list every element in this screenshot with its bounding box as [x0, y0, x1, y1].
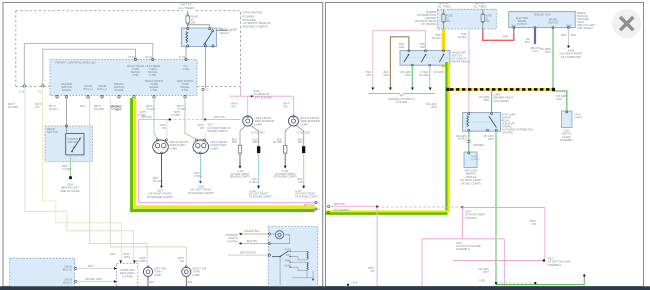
- svg-text:ORG: ORG: [124, 255, 130, 259]
- wire left drop B pale green: [25, 87, 134, 261]
- FCM top pins: [134, 58, 136, 60]
- svg-text:WHT: WHT: [557, 97, 563, 101]
- svg-text:VIO: VIO: [231, 105, 236, 109]
- headlamp switch box: [400, 51, 450, 66]
- svg-text:WHT: WHT: [110, 252, 116, 256]
- svg-text:(ENGINE COMPT): (ENGINE COMPT): [230, 176, 250, 179]
- svg-text:C344: C344: [351, 282, 358, 285]
- svg-text:BUS (+): BUS (+): [97, 87, 107, 91]
- svg-text:ENGINE COMPT): ENGINE COMPT): [243, 25, 268, 29]
- svg-text:OF BODY): OF BODY): [465, 217, 477, 220]
- splice dot left: [169, 118, 171, 120]
- ground wire from trailer tow: [568, 29, 570, 46]
- highlighted wire horizontal green band: [130, 209, 314, 212]
- pink drop right: [503, 239, 505, 286]
- CAN bus module box bottom left: [10, 258, 75, 287]
- svg-text:CUT): CUT): [532, 49, 538, 53]
- svg-text:VIO: VIO: [162, 127, 166, 130]
- wire left drop A pale yellow: [43, 87, 122, 261]
- svg-text:CTRL: CTRL: [182, 67, 190, 71]
- svg-text:GRN: GRN: [253, 141, 259, 144]
- left front lamp ground wire LT BLU: [200, 154, 202, 181]
- svg-text:ASSEMBLY): ASSEMBLY): [456, 248, 470, 251]
- svg-text:LT GRN: LT GRN: [171, 114, 180, 117]
- svg-text:20A: 20A: [446, 20, 451, 23]
- svg-text:1 E-SOCKET: 1 E-SOCKET: [251, 132, 266, 135]
- pink tail feed wire right of S344: [463, 207, 545, 209]
- switch ladder: [272, 251, 289, 257]
- svg-text:OF CARPET/MS): OF CARPET/MS): [561, 55, 581, 59]
- dashed highlighted wire black/yellow: [448, 88, 553, 91]
- highlighted circuit vertical: yellow band: [448, 62, 450, 212]
- bulb resistor right marker: [284, 145, 287, 153]
- junction S344: [461, 206, 463, 208]
- svg-text:ALL TIMES: ALL TIMES: [178, 6, 194, 10]
- svg-text:DK BLU: DK BLU: [458, 138, 467, 141]
- svg-text:LEFT ENGINE): LEFT ENGINE): [254, 95, 273, 99]
- pink drop left to bottom: [421, 239, 423, 286]
- svg-text:SIDE OF DASH): SIDE OF DASH): [60, 189, 80, 193]
- dashed IPM segment right of FCM with pin: [202, 88, 204, 90]
- resistor zigzags: [307, 251, 308, 259]
- wire FCM pin to hazard switch: [66, 98, 68, 134]
- power distribution center dashed box: [437, 9, 496, 29]
- ground wire left marker inner: [239, 153, 241, 166]
- svg-text:1 (TRN L): 1 (TRN L): [471, 159, 481, 161]
- pink wire to lower park feed: [139, 120, 315, 203]
- svg-text:WHT: WHT: [571, 33, 577, 37]
- green wire bottom run: [496, 276, 584, 284]
- svg-text:40 C2: 40 C2: [145, 55, 152, 59]
- pink park lamp feed solid-dashed-solid: [139, 119, 170, 121]
- svg-text:ORG: ORG: [405, 74, 411, 77]
- svg-text:LT BLU: LT BLU: [250, 181, 258, 184]
- svg-text:BLK: BLK: [188, 281, 193, 284]
- highlighted circuit horizontal green band: [326, 212, 448, 215]
- svg-text:SWITCH: SWITCH: [68, 141, 78, 144]
- svg-text:WHT: WHT: [483, 271, 489, 274]
- svg-text:OF ENGINE COMPT): OF ENGINE COMPT): [295, 195, 318, 198]
- svg-text:TAN: TAN: [298, 181, 303, 184]
- interior lights system arrows: [239, 233, 242, 236]
- hazard switch dashed box: [45, 126, 93, 162]
- wire drop D pale green: [110, 98, 186, 267]
- hazard switch ground wire LT GRN: [70, 155, 72, 176]
- pink run to S303: [453, 260, 544, 262]
- svg-text:ENGINE COMPT): ENGINE COMPT): [208, 130, 228, 133]
- computer data lines system box: [117, 264, 138, 287]
- svg-text:LAMP: LAMP: [154, 273, 162, 277]
- svg-text:DK GRN/WHT: DK GRN/WHT: [298, 209, 315, 213]
- svg-text:WHT/DK GRN: WHT/DK GRN: [85, 277, 102, 281]
- svg-text:1 (PARK): 1 (PARK): [574, 116, 583, 119]
- highlighted wire vertical green part: [130, 98, 133, 212]
- bus wire n-shape outer: [24, 43, 153, 84]
- junction S344 left: [376, 206, 378, 208]
- svg-text:LT GRN: LT GRN: [137, 114, 146, 117]
- svg-text:BLK/TAN: BLK/TAN: [247, 240, 257, 243]
- svg-text:47 C2: 47 C2: [179, 55, 186, 59]
- splice G300: [69, 176, 72, 179]
- svg-text:WHT/DK GRN: WHT/DK GRN: [240, 252, 256, 255]
- svg-text:TAN: TAN: [298, 141, 303, 144]
- teal ground wire left marker: [258, 153, 260, 186]
- hot at all times labels: [437, 2, 487, 9]
- svg-text:SYSTEM: SYSTEM: [122, 274, 133, 278]
- svg-text:SWITCH: SWITCH: [548, 22, 558, 25]
- white stub wires from splices to lamp pins: [167, 120, 205, 140]
- stop lamp relay: [463, 113, 501, 132]
- ABS module box: [464, 152, 477, 168]
- left tail turn lamp: [143, 267, 152, 276]
- close button: [612, 9, 641, 38]
- svg-text:10A: 10A: [191, 21, 196, 25]
- svg-text:FRONT CONTROL MODULE: FRONT CONTROL MODULE: [55, 61, 96, 65]
- svg-text:DK GRN: DK GRN: [153, 179, 163, 183]
- svg-text:ALL TIMES: ALL TIMES: [473, 5, 487, 9]
- svg-text:1 (BLU): 1 (BLU): [574, 114, 582, 116]
- highlighted circuit horizontal to left edge: yellow band: [326, 210, 448, 212]
- green wire from switch to engine controls: [411, 65, 413, 88]
- svg-text:VIO: VIO: [370, 270, 374, 273]
- green wire from dashed down to stop lamp relay: [491, 91, 493, 113]
- S344 label: [494, 93, 514, 103]
- svg-text:1 E-SOCKET: 1 E-SOCKET: [296, 132, 311, 135]
- svg-text:GND: GND: [566, 25, 572, 28]
- svg-text:20A: 20A: [485, 20, 490, 23]
- svg-text:OUTPUT: OUTPUT: [517, 23, 528, 26]
- svg-text:DK GRN: DK GRN: [8, 105, 18, 109]
- svg-text:ORG: ORG: [399, 46, 405, 49]
- pink wire drop from S344: [462, 208, 464, 239]
- svg-text:WHT: WHT: [484, 99, 490, 102]
- svg-text:CENTER): CENTER): [502, 132, 513, 135]
- svg-text:LT GRN: LT GRN: [62, 167, 71, 171]
- junction dot bottom left of right panel: [347, 284, 349, 286]
- svg-text:41 C2: 41 C2: [128, 55, 135, 59]
- svg-text:BLK: BLK: [562, 33, 567, 37]
- FCM bottom pins: [56, 96, 186, 98]
- svg-text:OF ENG COMPT): OF ENG COMPT): [461, 182, 481, 185]
- left page frame: [3, 3, 323, 287]
- red wire fuse31 to trailer tow module: [483, 29, 514, 41]
- svg-text:ASSEMBLY: ASSEMBLY: [560, 139, 574, 142]
- svg-text:VIO: VIO: [200, 127, 204, 130]
- pink wire down right side of FCM from relay: [202, 91, 204, 121]
- switch contacts inside: [404, 54, 444, 62]
- bulb resistor left marker: [238, 145, 241, 153]
- FCM left boundary pins on IPM edge: [23, 85, 25, 87]
- svg-text:ORG: ORG: [383, 74, 389, 77]
- svg-text:WHT/VIO: WHT/VIO: [334, 203, 345, 206]
- green wire FCM to right front lamp: [154, 98, 158, 139]
- stop lamp switch lever box: [562, 111, 573, 128]
- left front side marker lamp: [243, 116, 253, 126]
- splice box left marker: [257, 146, 260, 153]
- svg-text:(HIDDEN): (HIDDEN): [473, 144, 484, 147]
- svg-text:DK BLU: DK BLU: [49, 107, 58, 111]
- svg-text:G305: G305: [479, 280, 486, 283]
- blunt cut dk blu wire: [534, 29, 536, 44]
- svg-text:1 (BLU): 1 (BLU): [471, 156, 479, 158]
- highlighted wire horizontal yellow band: [133, 205, 314, 208]
- svg-text:BRAKE PEDAL): BRAKE PEDAL): [452, 60, 471, 64]
- svg-text:WHT: WHT: [431, 105, 437, 109]
- svg-text:CTRL: CTRL: [181, 88, 189, 92]
- svg-text:TRAILER TOW: TRAILER TOW: [534, 14, 552, 17]
- svg-text:DK GRN: DK GRN: [273, 141, 283, 144]
- CAN wires to computer box: [77, 268, 114, 270]
- svg-text:WHT/VIO: WHT/VIO: [214, 116, 225, 119]
- pink side marker feed S102: [230, 87, 294, 116]
- svg-text:LT BLU: LT BLU: [194, 174, 203, 178]
- svg-text:B(+): B(+): [511, 25, 516, 28]
- wire labels below FCM: [8, 102, 186, 111]
- fuse 31: [482, 9, 484, 29]
- right page frame: [326, 3, 644, 287]
- svg-text:RED: RED: [503, 35, 509, 39]
- integrated power module dashed boundary: [16, 11, 241, 87]
- highlighted wire vertical yellow part: [133, 98, 136, 205]
- svg-text:DK BLU: DK BLU: [458, 35, 467, 39]
- bottom task bar: [0, 286, 650, 290]
- svg-text:SYSTEM: SYSTEM: [227, 239, 238, 243]
- svg-text:VIO: VIO: [283, 105, 288, 109]
- hazard switch contacts: [72, 139, 80, 151]
- svg-text:SIGNAL: SIGNAL: [62, 88, 72, 92]
- dome lamp symbol: [275, 231, 283, 239]
- svg-text:SIGNAL: SIGNAL: [114, 88, 124, 92]
- dashed tail feed wire: [330, 205, 377, 207]
- svg-text:DK GRN: DK GRN: [434, 71, 444, 74]
- connector pins at right edge of highlighted wire: [315, 201, 317, 203]
- right front lamp ground wire BLK: [161, 154, 163, 186]
- svg-text:BLU: BLU: [525, 40, 530, 44]
- svg-text:PNK: PNK: [218, 28, 223, 31]
- right front side marker lamp: [289, 116, 299, 126]
- ground wire right marker inner: [284, 153, 286, 166]
- svg-text:WHT: WHT: [88, 264, 94, 268]
- svg-text:GRY: GRY: [420, 46, 426, 49]
- tan ground wire right marker: [303, 153, 305, 186]
- svg-text:OF ENGINE COMPT): OF ENGINE COMPT): [274, 176, 297, 179]
- arrows into computer data lines box: [119, 261, 122, 264]
- svg-text:SWITCH: SWITCH: [47, 130, 58, 134]
- left front park/turn lamp: [193, 140, 209, 154]
- headlamp switch assembly box: [268, 227, 318, 287]
- splice S305 dashed stub: [497, 282, 535, 284]
- svg-text:KICK PANEL): KICK PANEL): [577, 26, 593, 30]
- pink bus to taillamps: [422, 238, 504, 240]
- svg-text:OF ENGINE COMPT): OF ENGINE COMPT): [188, 191, 214, 195]
- svg-text:ALL TIMES: ALL TIMES: [437, 5, 451, 9]
- svg-text:BUS (-): BUS (-): [84, 87, 93, 91]
- engine controls arrowheads: [371, 88, 374, 91]
- green wire FCM to left front lamp: [185, 98, 196, 139]
- pink loop to engine controls: [373, 31, 426, 88]
- front control module box: [50, 59, 197, 95]
- green wire relay to ABS module: [468, 131, 470, 152]
- svg-text:OF ENGINE COMPT): OF ENGINE COMPT): [249, 195, 272, 198]
- svg-text:BUS (-): BUS (-): [63, 281, 72, 285]
- wire drop C tan: [90, 98, 148, 267]
- highlighted yellow feed wire: [442, 29, 445, 68]
- svg-text:CTRL: CTRL: [132, 73, 140, 77]
- wire labels below switch: [366, 71, 445, 77]
- wire branch fuse to relay coil+switch: [188, 25, 210, 28]
- svg-text:VIO: VIO: [532, 223, 536, 226]
- svg-text:SYSTEM: SYSTEM: [396, 100, 408, 104]
- svg-text:4 C3: 4 C3: [19, 91, 25, 94]
- dk grn wire from trailer tow down: [553, 29, 567, 111]
- svg-text:WHT: WHT: [80, 104, 86, 108]
- svg-text:CTRL: CTRL: [149, 73, 157, 77]
- park lamp relay U-relay: [182, 28, 217, 47]
- svg-text:DK GRN: DK GRN: [136, 259, 146, 263]
- svg-text:OF TRUNK): OF TRUNK): [421, 22, 436, 26]
- relay output stub right: [217, 30, 228, 32]
- FCM inner labels top row: [61, 64, 194, 92]
- left marker socket assembly: [240, 126, 246, 146]
- svg-text:BUS (+): BUS (+): [63, 268, 72, 272]
- svg-text:GRN: GRN: [232, 141, 238, 144]
- svg-text:DK GRN/WHT: DK GRN/WHT: [334, 209, 351, 212]
- splice box right marker: [302, 146, 305, 153]
- right marker socket assembly: [285, 126, 291, 146]
- pink wire drop WHT/VIO left: [376, 207, 378, 286]
- svg-text:OF ENGINE COMPT): OF ENGINE COMPT): [147, 195, 173, 199]
- trailer tow module box: [509, 12, 576, 28]
- edge connector pins on highlighted wire: [328, 205, 330, 207]
- pink wire fuse31 to stop lamp relay: [468, 29, 470, 113]
- right front park/turn lamp: [153, 140, 169, 154]
- engine controls brace: [368, 94, 435, 97]
- wire relay to FCM pin 47: [185, 47, 187, 60]
- svg-text:KICK PANEL): KICK PANEL): [494, 99, 510, 103]
- brown loop to engine controls: [390, 37, 409, 88]
- fuse 32: [443, 9, 445, 29]
- green wire relay down long: [495, 131, 497, 285]
- pink drop from dashed bus right: [544, 208, 546, 261]
- fuse F32: [187, 11, 189, 28]
- svg-text:LAMP: LAMP: [193, 273, 201, 277]
- svg-text:VIO: VIO: [35, 105, 39, 109]
- svg-text:WHT: WHT: [115, 108, 121, 112]
- svg-text:LAMP: LAMP: [211, 146, 219, 150]
- svg-text:ASSEMBLY): ASSEMBLY): [548, 264, 562, 267]
- teal wire from switch to engine controls: [429, 65, 431, 88]
- svg-text:VIO: VIO: [180, 259, 184, 263]
- highlighted circuit vertical: green band: [445, 62, 447, 215]
- svg-text:RELAY: RELAY: [220, 31, 230, 35]
- svg-text:DK GRN: DK GRN: [419, 74, 429, 77]
- svg-text:GRY: GRY: [366, 74, 372, 77]
- right tail turn lamp: [182, 267, 191, 276]
- wire into headlamp switch box: [228, 254, 268, 256]
- svg-text:ORG/DK BLU: ORG/DK BLU: [244, 230, 260, 233]
- svg-text:WHT: WHT: [545, 50, 551, 54]
- svg-text:LAMP: LAMP: [301, 122, 309, 126]
- wire relay pin 87 down right side of FCM: [205, 47, 207, 89]
- svg-text:BLK: BLK: [150, 281, 155, 284]
- splice dot S107: [204, 118, 206, 120]
- svg-text:LAMP: LAMP: [170, 146, 178, 150]
- svg-text:WHT: WHT: [488, 138, 494, 141]
- svg-text:LAMP: LAMP: [255, 122, 263, 126]
- svg-text:DK BLU: DK BLU: [432, 36, 441, 40]
- bus wire n-shape inner: [43, 49, 136, 84]
- svg-text:CTRL: CTRL: [150, 88, 158, 92]
- svg-text:DK GRN: DK GRN: [94, 107, 104, 111]
